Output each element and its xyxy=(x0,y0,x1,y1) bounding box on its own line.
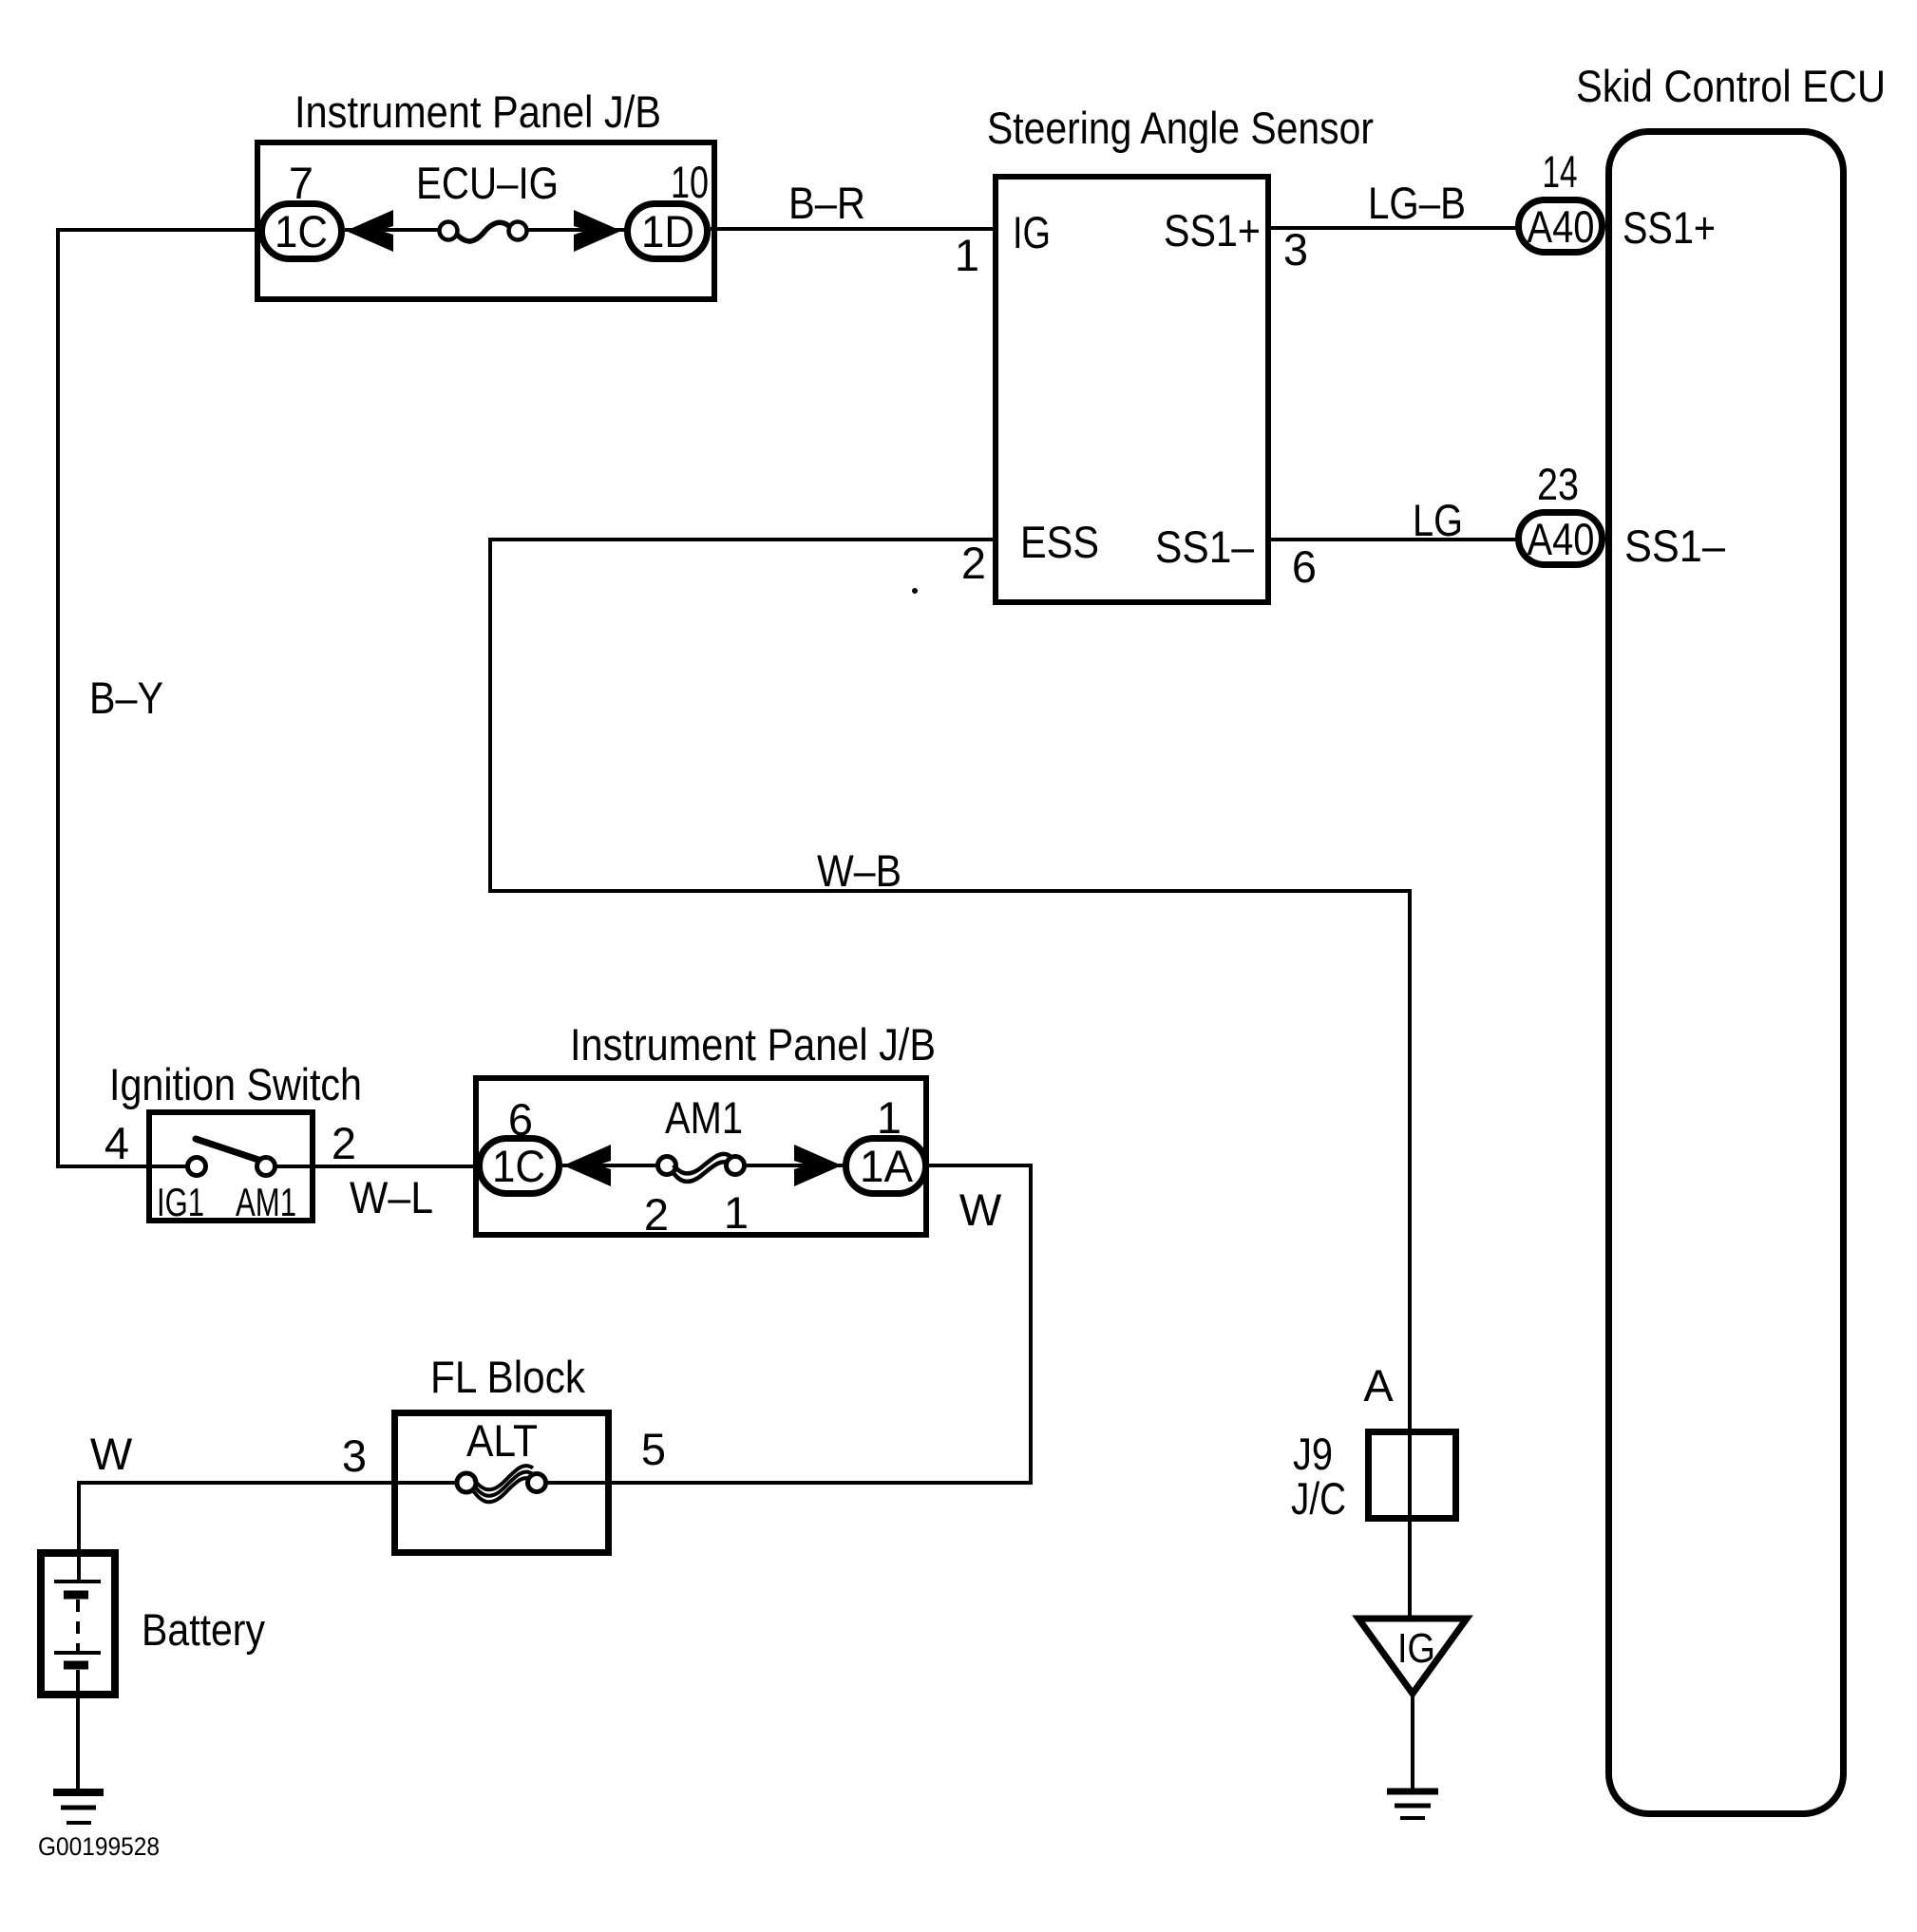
dot artifact xyxy=(912,588,918,594)
instrument panel J/B box 1 xyxy=(257,142,714,299)
fuse AM1: left terminal circle xyxy=(658,1157,676,1175)
ground (right) xyxy=(1387,1789,1438,1795)
svg-text:IG1: IG1 xyxy=(157,1180,204,1224)
wire battery to ground xyxy=(76,1670,80,1789)
fusible link ALT: left terminal circle xyxy=(457,1473,476,1492)
svg-text:AM1: AM1 xyxy=(236,1180,296,1224)
svg-text:1C: 1C xyxy=(492,1141,545,1191)
svg-text:LG: LG xyxy=(1413,495,1463,545)
wire W-L: switch to J/B 2 xyxy=(275,1165,479,1168)
FL block box xyxy=(395,1413,609,1553)
battery cell: plate long 2 xyxy=(54,1651,101,1655)
fusible link ALT: band xyxy=(474,1466,533,1489)
battery cell: plate short thick 2 xyxy=(64,1661,88,1670)
svg-text:6: 6 xyxy=(1292,541,1317,592)
wire fuse to 1D xyxy=(526,228,627,232)
ignition switch box xyxy=(149,1112,313,1221)
svg-text:W–L: W–L xyxy=(350,1172,433,1222)
wire W: FL block to battery xyxy=(79,1483,458,1553)
svg-text:SS1–: SS1– xyxy=(1624,521,1726,571)
svg-text:Ignition Switch: Ignition Switch xyxy=(109,1059,362,1109)
fusible link ALT: right terminal circle xyxy=(528,1474,546,1492)
svg-text:A: A xyxy=(1363,1360,1394,1411)
wire W: 1A right, down to FL block pin 5 xyxy=(545,1165,1031,1483)
svg-text:IG: IG xyxy=(1397,1625,1435,1672)
svg-text:Instrument Panel J/B: Instrument Panel J/B xyxy=(294,86,661,137)
svg-text:Battery: Battery xyxy=(142,1604,265,1655)
skid control ECU box xyxy=(1609,132,1844,1814)
instrument panel J/B box 2 xyxy=(476,1078,926,1235)
svg-text:B–Y: B–Y xyxy=(89,672,163,723)
wire 1C to fuse AM1 xyxy=(562,1164,658,1167)
svg-text:W: W xyxy=(959,1184,1002,1235)
svg-text:14: 14 xyxy=(1543,146,1578,197)
svg-text:SS1+: SS1+ xyxy=(1623,202,1716,253)
svg-text:AM1: AM1 xyxy=(665,1092,743,1143)
wire LG: SS1- to A40 pin 23 xyxy=(1271,538,1518,541)
wire triangle to ground xyxy=(1411,1694,1414,1791)
ground (battery) xyxy=(53,1789,104,1796)
wire W-B: ESS down, across, to J9 J/C xyxy=(490,540,1410,1619)
wire fuse to 1A xyxy=(744,1164,846,1167)
svg-text:2: 2 xyxy=(332,1118,356,1168)
switch contact AM1 xyxy=(257,1158,275,1176)
svg-text:1D: 1D xyxy=(641,206,694,256)
fuse AM1: right terminal circle xyxy=(727,1157,745,1175)
svg-text:5: 5 xyxy=(641,1424,666,1474)
svg-text:SS1–: SS1– xyxy=(1155,521,1255,572)
switch blade xyxy=(196,1139,258,1160)
battery cell: top wire xyxy=(77,1553,81,1580)
svg-text:1C: 1C xyxy=(275,206,328,256)
svg-text:Steering Angle Sensor: Steering Angle Sensor xyxy=(987,103,1374,153)
fuse AM1: fusible link band xyxy=(674,1154,731,1174)
fuse ECU-IG: right terminal circle xyxy=(509,222,527,240)
connector A40 (SS1-) xyxy=(1519,513,1603,565)
fuse ECU-IG: left terminal circle xyxy=(440,222,458,240)
svg-text:W: W xyxy=(90,1429,133,1479)
svg-text:J/C: J/C xyxy=(1291,1473,1346,1524)
arrow right (J/B 2) xyxy=(794,1145,842,1186)
svg-text:4: 4 xyxy=(104,1118,129,1168)
svg-text:1: 1 xyxy=(955,230,979,280)
svg-text:1: 1 xyxy=(724,1187,749,1238)
fuse ECU-IG: wavy element xyxy=(457,222,510,241)
svg-text:FL Block: FL Block xyxy=(430,1352,585,1402)
switch contact IG1 xyxy=(188,1158,206,1176)
steering angle sensor box xyxy=(996,177,1268,602)
wire B-Y: from connector 1C left through left edge down to ignition switch pin 4 xyxy=(58,230,258,1166)
connector A40 (SS1+) xyxy=(1519,200,1603,253)
svg-text:10: 10 xyxy=(671,157,709,207)
svg-text:ESS: ESS xyxy=(1020,517,1099,567)
svg-text:1A: 1A xyxy=(860,1141,914,1191)
svg-text:Instrument Panel J/B: Instrument Panel J/B xyxy=(570,1019,936,1070)
svg-text:W–B: W–B xyxy=(817,845,902,896)
arrow left (J/B 1) xyxy=(346,210,393,252)
battery cell: plate long 1 xyxy=(54,1580,101,1583)
IG ground triangle xyxy=(1358,1619,1467,1694)
svg-text:A40: A40 xyxy=(1528,514,1595,564)
svg-text:A40: A40 xyxy=(1528,201,1595,252)
svg-text:IG: IG xyxy=(1013,207,1051,257)
svg-text:LG–B: LG–B xyxy=(1368,178,1466,228)
svg-text:ALT: ALT xyxy=(466,1415,538,1466)
svg-text:SS1+: SS1+ xyxy=(1164,205,1261,256)
svg-text:2: 2 xyxy=(644,1189,669,1240)
svg-text:B–R: B–R xyxy=(788,178,865,228)
junction connector J9 J/C box xyxy=(1369,1432,1456,1519)
battery cell: dashed middle xyxy=(76,1600,80,1651)
connector 1D xyxy=(628,204,708,259)
svg-text:ECU–IG: ECU–IG xyxy=(416,158,559,208)
arrow right (J/B 1) xyxy=(574,210,621,252)
arrow left (J/B 2) xyxy=(563,1145,611,1186)
battery box xyxy=(41,1553,115,1695)
svg-text:23: 23 xyxy=(1537,459,1579,509)
wire B-R: 1D to steering angle sensor IG xyxy=(711,227,996,231)
battery cell: plate short thick 1 xyxy=(64,1591,88,1600)
svg-text:J9: J9 xyxy=(1293,1429,1333,1479)
svg-text:3: 3 xyxy=(1283,224,1308,275)
connector 1C (J/B 1) xyxy=(262,204,342,259)
svg-text:3: 3 xyxy=(342,1430,367,1481)
svg-text:Skid Control ECU: Skid Control ECU xyxy=(1576,61,1886,111)
connector 1A xyxy=(846,1139,926,1194)
svg-text:G00199528: G00199528 xyxy=(38,1832,160,1861)
svg-text:2: 2 xyxy=(961,538,986,588)
wire LG-B: SS1+ to A40 pin 14 xyxy=(1271,226,1518,230)
connector 1C (J/B 2) xyxy=(480,1139,560,1194)
wire 1C to fuse xyxy=(345,228,448,232)
